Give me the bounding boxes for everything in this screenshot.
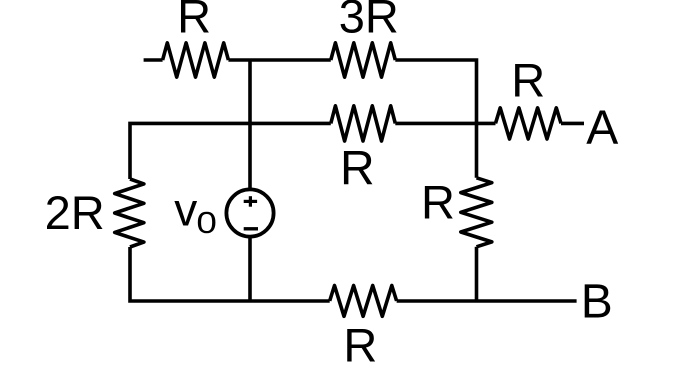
svg-text:R: R: [340, 142, 375, 195]
svg-text:R: R: [343, 319, 377, 366]
svg-text:v: v: [174, 184, 197, 236]
svg-text:2R: 2R: [45, 186, 105, 239]
svg-text:0: 0: [196, 205, 217, 240]
svg-text:R: R: [421, 176, 455, 229]
svg-text:R: R: [511, 53, 545, 106]
svg-text:A: A: [586, 102, 618, 155]
svg-text:3R: 3R: [339, 0, 399, 42]
svg-text:B: B: [581, 276, 613, 329]
svg-text:R: R: [177, 0, 211, 43]
